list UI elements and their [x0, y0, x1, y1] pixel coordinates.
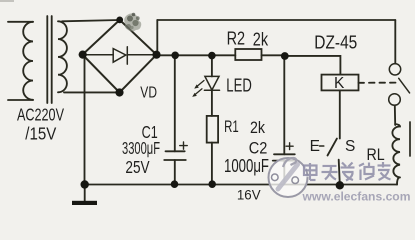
wire K to switch S [339, 90, 341, 138]
scan artifact top-left edge [0, 0, 14, 2]
wire RL to ground rail [397, 178, 399, 185]
scan smudge blob near bridge top [124, 13, 141, 32]
capacitor C2 branch wire top [283, 56, 285, 154]
svg-text:AC220V: AC220V [17, 104, 64, 124]
watermark logo circle [269, 158, 308, 197]
ground symbol bar [72, 201, 97, 205]
load coil RL winding [392, 124, 400, 177]
svg-text:2k: 2k [250, 118, 265, 137]
wire secondary top lead to bridge [62, 20, 120, 21]
bridge rectifier VD diamond [83, 20, 157, 93]
svg-text:LED: LED [226, 75, 252, 95]
wire LED cathode to R1 [211, 90, 213, 116]
resistor R1 body [207, 116, 218, 143]
svg-text:/15V: /15V [25, 123, 56, 143]
wire right drop to relay contact [394, 20, 396, 64]
svg-text:E: E [310, 138, 320, 155]
junction node switch bottom [336, 181, 344, 189]
switch E-S dash label mark [320, 145, 324, 147]
wire bridge right corner up to top rail [156, 20, 158, 55]
junction node ground rail left [81, 180, 89, 188]
wire contact to load coil RL [394, 105, 396, 125]
relay contact top circle [389, 64, 400, 75]
svg-text:R1: R1 [224, 117, 239, 136]
svg-text:RL: RL [367, 145, 385, 164]
capacitor C2 plates [273, 154, 296, 160]
junction node bridge bottom corner [115, 88, 123, 96]
wire top rail [157, 19, 395, 21]
junction node bridge right corner [152, 51, 160, 59]
svg-text:K: K [334, 75, 345, 92]
switch S blade [328, 139, 337, 156]
junction node C1 top [171, 52, 179, 60]
wire +V rail segment C1 node to LED node [175, 54, 212, 56]
junction node C2 top [281, 52, 289, 60]
wire bridge negative output down to ground rail [84, 55, 86, 185]
svg-text:www.elecfans.com: www.elecfans.com [301, 189, 410, 203]
wire switch S to ground rail [339, 160, 340, 185]
capacitor C2 plus sign [286, 143, 293, 150]
junction node LED top [208, 52, 216, 60]
junction node C1 bottom [171, 180, 179, 188]
svg-text:25V: 25V [125, 157, 149, 177]
resistor R2 body [235, 49, 261, 60]
relay contact moving blade [399, 78, 410, 93]
wire R1 to ground rail [211, 143, 213, 185]
wire secondary bottom lead to bridge [64, 91, 120, 93]
LED emission arrows [192, 81, 204, 97]
junction node bridge left corner [79, 51, 87, 59]
wire +V rail segment bridge to C1 node [157, 54, 176, 56]
wire C2 node to relay K [285, 56, 341, 75]
capacitor C1 plates [164, 151, 186, 160]
junction node R1 bottom [208, 180, 216, 188]
load coil RL core bar [409, 122, 411, 156]
svg-text:2k: 2k [253, 29, 269, 49]
junction node bridge top corner [116, 17, 123, 24]
transformer T core [47, 16, 51, 103]
watermark text dianzifashaoyou (simulated strokes) [305, 164, 392, 181]
svg-text:1000μF: 1000μF [224, 156, 269, 176]
svg-text:R2: R2 [227, 29, 246, 49]
relay K dashed actuation link [359, 82, 400, 84]
bridge internal diode [85, 47, 154, 64]
ground symbol stem [84, 185, 86, 202]
wire bottom ground rail [85, 184, 397, 186]
svg-text:3300μF: 3300μF [122, 138, 160, 158]
svg-text:DZ-45: DZ-45 [314, 31, 357, 52]
capacitor C1 branch wire bottom [174, 160, 176, 185]
svg-text:VD: VD [140, 85, 157, 102]
relay coil K box [322, 75, 359, 91]
relay contact bottom circle [389, 94, 401, 106]
capacitor C1 plus sign [180, 142, 187, 149]
capacitor C1 branch wire top [174, 55, 176, 151]
capacitor C2 branch wire bottom [283, 161, 285, 185]
transformer T primary winding [8, 22, 33, 100]
LED diode symbol [204, 76, 219, 90]
wire +V rail segment LED node to R2 [212, 54, 235, 56]
transformer T secondary winding [58, 21, 67, 92]
svg-text:16V: 16V [237, 186, 261, 202]
svg-text:C2: C2 [249, 140, 268, 158]
svg-text:S: S [345, 138, 355, 155]
wire LED node to LED anode [211, 55, 213, 76]
wire R2 to C2 node [262, 54, 285, 56]
